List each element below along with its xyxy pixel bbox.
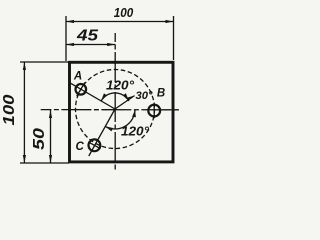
hole A	[76, 82, 87, 96]
left extension line (top dims)	[65, 16, 67, 61]
right extension line (top dim)	[173, 16, 175, 60]
svg-text:100: 100	[114, 6, 134, 20]
ray O-A	[71, 83, 116, 109]
dim line 50	[50, 110, 52, 163]
arrow top100 right	[166, 20, 174, 23]
left dim line 100	[23, 62, 25, 163]
arrow top100 left	[66, 20, 74, 23]
hole B	[148, 103, 160, 118]
hole C	[88, 139, 100, 151]
bottom extension line (left dims)	[20, 162, 69, 164]
arrow 45 left	[66, 43, 74, 46]
svg-text:B: B	[157, 88, 165, 100]
svg-text:120°: 120°	[106, 79, 135, 93]
bolt circle (dashed)	[76, 70, 155, 149]
vertical centerline	[114, 33, 116, 170]
arrow top arc right	[123, 93, 129, 101]
top dim line 100	[66, 21, 174, 23]
arrow 50 bottom	[49, 155, 52, 163]
dim line 45	[66, 44, 115, 46]
ray O-C	[89, 109, 115, 156]
arrow left100 top	[23, 62, 26, 70]
arrow 50 top	[49, 110, 52, 118]
top extension line (left dim)	[20, 61, 69, 63]
square plate outline	[70, 62, 174, 162]
svg-text:100: 100	[1, 94, 18, 125]
arrow bottom arc right	[132, 110, 136, 117]
arrow 30deg ray	[127, 96, 135, 101]
svg-text:45: 45	[76, 28, 99, 45]
top angle arc 120deg	[101, 93, 129, 101]
arrow bottom arc left	[105, 126, 113, 131]
svg-text:30°: 30°	[136, 90, 154, 102]
horizontal centerline	[41, 109, 180, 111]
bottom angle arc 120deg	[105, 110, 135, 129]
svg-text:C: C	[76, 141, 85, 153]
svg-text:50: 50	[31, 128, 48, 150]
arrow left100 bottom	[23, 155, 26, 163]
svg-text:A: A	[73, 71, 82, 83]
ray 30deg	[115, 96, 135, 109]
svg-text:120°: 120°	[121, 125, 150, 139]
arrow top arc left	[101, 93, 107, 101]
arrow 45 right	[107, 43, 115, 46]
